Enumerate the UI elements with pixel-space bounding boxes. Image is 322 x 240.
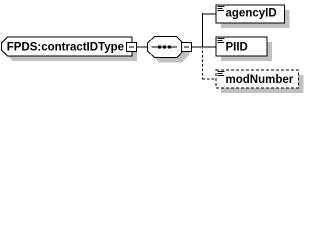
shadow of element FPDS:contractIDType xyxy=(7,42,138,61)
element PIID box xyxy=(216,37,267,56)
shadow of element modNumber xyxy=(221,75,304,93)
wire branch to agencyID xyxy=(203,13,217,15)
expand box (minus) on sequence xyxy=(182,43,192,52)
shadow of element PIID xyxy=(221,42,272,61)
sequence compositor octagon xyxy=(148,37,185,58)
svg-text:PIID: PIID xyxy=(226,42,248,54)
expand box (minus) on FPDS:contractIDType xyxy=(127,43,137,52)
shadow of sequence compositor xyxy=(153,42,190,63)
wire branch to modNumber (dashed, optional) xyxy=(203,78,218,80)
wire junction vertical dashed (optional branch) xyxy=(202,48,204,80)
sequence icon (line with three dots) xyxy=(152,46,178,49)
wire from FPDS:contractIDType expand box to sequence xyxy=(137,46,149,48)
element FPDS:contractIDType box xyxy=(2,37,133,56)
shadow of element agencyID xyxy=(221,10,290,28)
simple-content icon in modNumber xyxy=(218,72,225,76)
element agencyID box xyxy=(216,5,285,23)
svg-text:modNumber: modNumber xyxy=(226,74,294,86)
svg-text:FPDS:contractIDType: FPDS:contractIDType xyxy=(7,42,124,54)
simple-content icon in agencyID xyxy=(218,7,225,11)
svg-text:agencyID: agencyID xyxy=(226,8,277,20)
simple-content icon in PIID xyxy=(218,39,225,43)
wire from sequence expand box to PIID (through junction) xyxy=(192,46,217,48)
element modNumber box (optional, dashed) xyxy=(216,70,299,88)
wire junction vertical (solid, up to agencyID branch) xyxy=(202,13,204,48)
